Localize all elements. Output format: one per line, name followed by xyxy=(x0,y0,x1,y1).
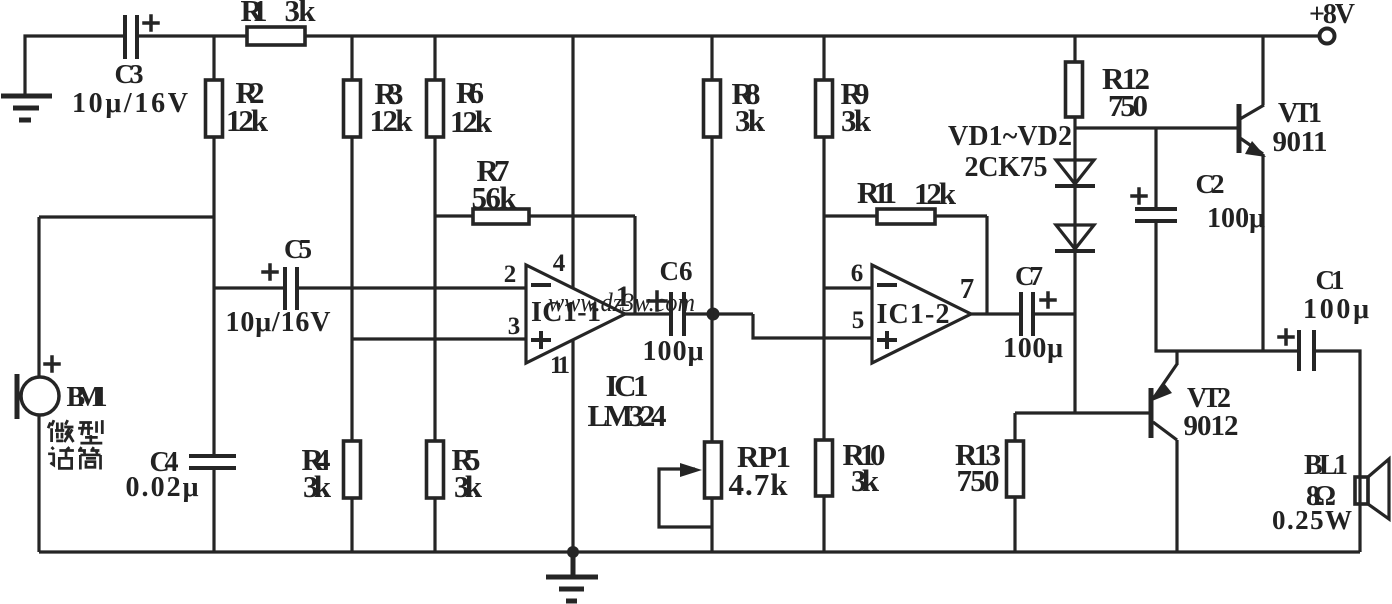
chinese label 话 xyxy=(48,447,74,468)
ground (bottom center) xyxy=(546,552,598,601)
svg-text:3: 3 xyxy=(508,313,521,340)
wire R13 column top xyxy=(1013,413,1016,441)
svg-text:7: 7 xyxy=(960,273,975,305)
wire RP1 bottom xyxy=(710,497,713,552)
svg-text:750: 750 xyxy=(957,463,1000,498)
svg-text:R1: R1 xyxy=(241,0,268,28)
svg-text:4: 4 xyxy=(553,250,566,277)
svg-text:3k: 3k xyxy=(851,463,880,498)
resistor R12 xyxy=(1066,62,1083,117)
polarity + of C3 xyxy=(144,16,158,30)
wire IC1 pin4 column xyxy=(571,36,574,288)
wire step down to pin 5 xyxy=(753,314,872,338)
wire C6 to node xyxy=(684,312,753,315)
capacitor C4 xyxy=(189,456,236,468)
svg-text:9012: 9012 xyxy=(1184,410,1239,442)
terminal +8V xyxy=(1320,29,1335,44)
svg-text:C7: C7 xyxy=(1015,261,1043,291)
svg-text:3k: 3k xyxy=(303,469,332,504)
capacitor C7 xyxy=(1021,292,1033,336)
polarity + of C7 xyxy=(1041,293,1055,307)
wire IC1-2 output xyxy=(971,312,1021,315)
wire IC1-1 output xyxy=(625,312,671,315)
svg-text:100μ: 100μ xyxy=(1003,333,1063,364)
svg-text:0.25W: 0.25W xyxy=(1272,505,1352,535)
resistor R5 xyxy=(427,441,444,498)
chinese label 微 xyxy=(48,420,73,442)
wire R2 column xyxy=(212,36,215,455)
polarity + of BM1 xyxy=(45,357,59,371)
svg-text:R11: R11 xyxy=(857,175,897,210)
wire C5 left xyxy=(214,286,285,289)
resistor R6 xyxy=(427,80,444,137)
svg-text:VT1: VT1 xyxy=(1278,98,1322,129)
wire VT1 base xyxy=(1075,126,1239,129)
wire C7 to diode column xyxy=(1033,312,1075,315)
wire BM1 to R2 column xyxy=(39,215,214,218)
wire R10 bottom xyxy=(822,496,825,552)
svg-text:C5: C5 xyxy=(284,234,312,264)
capacitor C1 xyxy=(1299,330,1314,371)
wire R2 column below C4 xyxy=(212,468,215,552)
svg-text:9011: 9011 xyxy=(1273,126,1328,158)
svg-text:C6: C6 xyxy=(660,256,693,286)
ground (top left) xyxy=(1,96,52,120)
svg-text:56k: 56k xyxy=(472,180,518,215)
svg-text:10μ/16V: 10μ/16V xyxy=(226,307,331,338)
wire diode column xyxy=(1073,36,1076,413)
resistor R3 xyxy=(344,80,361,137)
diode VD2 xyxy=(1055,225,1095,251)
polarity + of C6 xyxy=(648,292,666,310)
svg-text:2CK75: 2CK75 xyxy=(965,152,1048,183)
svg-text:LM324: LM324 xyxy=(588,398,667,433)
wire C2 column bottom to emitter rail xyxy=(1156,221,1299,351)
resistor R7 xyxy=(473,209,529,224)
wire C5 to op-amp pin 2 xyxy=(297,286,526,289)
polarity + of C5 xyxy=(263,265,277,279)
node ground junction dot xyxy=(567,546,579,558)
wire feedback vertical to output node xyxy=(633,216,636,314)
wire R13 bottom xyxy=(1013,497,1016,552)
svg-text:100μ: 100μ xyxy=(1207,203,1265,234)
wire RP1 wiper loop xyxy=(659,469,712,527)
svg-text:VD1~VD2: VD1~VD2 xyxy=(948,121,1072,152)
resistor R2 xyxy=(206,80,223,137)
wire feedback R7 left xyxy=(435,214,635,217)
wire top rail left segment xyxy=(25,36,125,95)
svg-text:4.7k: 4.7k xyxy=(729,467,789,502)
polarity + of C1 xyxy=(1279,330,1293,344)
svg-text:C1: C1 xyxy=(1316,265,1345,295)
wire IC1 pin11 column xyxy=(571,340,574,552)
capacitor C2 xyxy=(1135,209,1177,221)
op-amp plus IC1-2 xyxy=(879,333,895,347)
svg-text:12k: 12k xyxy=(450,104,493,139)
wire VT1 emitter column xyxy=(1261,154,1264,351)
resistor R10 xyxy=(816,440,833,496)
resistor R11 xyxy=(877,209,935,224)
svg-text:3k: 3k xyxy=(841,103,872,138)
svg-text:C3: C3 xyxy=(115,59,144,89)
wire R9/R10 column xyxy=(822,36,825,440)
wire feedback vertical to output 2 xyxy=(985,216,988,314)
wire VT2 collector down xyxy=(1175,440,1178,552)
svg-text:BM1: BM1 xyxy=(67,382,108,413)
microphone BM1 xyxy=(21,377,59,415)
svg-text:www.dz3w.com: www.dz3w.com xyxy=(548,288,695,317)
op-amp minus IC1-1 xyxy=(533,283,549,287)
svg-text:100μ: 100μ xyxy=(1303,294,1369,325)
svg-text:BL1: BL1 xyxy=(1304,450,1348,481)
svg-text:C2: C2 xyxy=(1196,169,1225,199)
svg-text:0.02μ: 0.02μ xyxy=(126,472,199,503)
node A junction dot xyxy=(707,308,720,321)
polarity + of C2 xyxy=(1132,189,1146,203)
svg-text:10μ/16V: 10μ/16V xyxy=(72,88,188,119)
op-amp U2 IC1-2 triangle xyxy=(872,265,971,363)
resistor R4 xyxy=(344,441,361,498)
op-amp plus IC1-1 xyxy=(533,333,549,347)
svg-text:100μ: 100μ xyxy=(643,336,704,367)
svg-text:3k: 3k xyxy=(454,469,483,504)
RP1 wiper arrow xyxy=(680,463,702,477)
resistor R1 xyxy=(247,27,305,45)
resistor R8 xyxy=(704,80,721,137)
diode VD1 xyxy=(1055,160,1095,186)
chinese label 筒 xyxy=(78,447,100,469)
svg-text:12k: 12k xyxy=(226,103,269,138)
potentiometer RP1 xyxy=(705,442,722,498)
transistor Q2 VT2 xyxy=(1151,364,1177,440)
chinese label 型 xyxy=(78,420,102,443)
wire C2 column top xyxy=(1154,128,1157,209)
wire BM1 column top xyxy=(37,217,40,378)
wire bottom rail xyxy=(39,550,1360,553)
resistor R9 xyxy=(816,80,833,137)
wire VT2 emitter up xyxy=(1175,351,1178,365)
speaker BL1 xyxy=(1355,459,1389,519)
wire R5 bottom xyxy=(433,498,436,552)
op-amp U1 IC1-1 triangle xyxy=(526,265,625,363)
wire top rail main segment xyxy=(137,34,1319,37)
wire R4 bottom xyxy=(350,498,353,552)
svg-text:750: 750 xyxy=(1108,88,1148,123)
wire feedback R11 xyxy=(824,214,987,217)
svg-text:+8V: +8V xyxy=(1309,0,1355,30)
wire R8 column xyxy=(710,36,713,441)
wire C1 to speaker column xyxy=(1314,351,1360,552)
svg-text:IC1-2: IC1-2 xyxy=(877,299,950,330)
capacitor C5 xyxy=(285,267,297,310)
wire R3/R4 column xyxy=(350,36,353,442)
capacitor C6 xyxy=(671,292,684,336)
capacitor C3 xyxy=(125,15,137,59)
transistor Q1 VT1 xyxy=(1239,104,1266,157)
wire VT1 collector to rail xyxy=(1261,36,1264,105)
svg-text:5: 5 xyxy=(852,307,865,334)
wire R6/R5 column xyxy=(433,36,436,442)
svg-text:3k: 3k xyxy=(285,0,317,28)
wire R9 to op-amp pin 6 xyxy=(824,286,872,289)
svg-text:12k: 12k xyxy=(914,176,957,211)
svg-text:12k: 12k xyxy=(370,103,414,138)
wire node R3R4 to op-amp pin 3 xyxy=(352,337,526,340)
svg-text:3k: 3k xyxy=(735,103,766,138)
wire VT2 base xyxy=(1015,411,1151,414)
svg-text:6: 6 xyxy=(851,260,864,287)
wire BM1 column bottom xyxy=(37,414,40,552)
svg-text:2: 2 xyxy=(504,261,517,288)
svg-text:11: 11 xyxy=(550,352,570,379)
op-amp minus IC1-2 xyxy=(879,283,895,287)
resistor R13 xyxy=(1007,441,1024,497)
